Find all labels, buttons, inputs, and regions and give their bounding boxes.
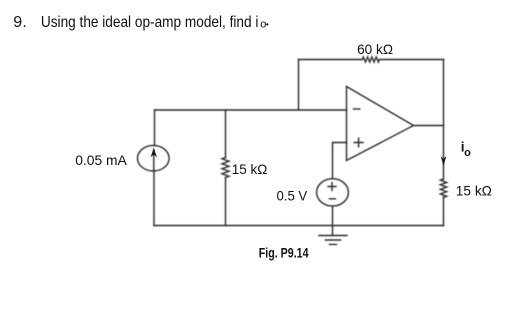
svg-text:15 kΩ: 15 kΩ [456,183,492,199]
op-amp U1 [347,87,414,161]
resistor R 60k [362,57,379,62]
wire right vertical (output to load) [443,60,445,226]
current source arrowhead [151,148,157,157]
svg-text:o: o [464,147,471,159]
ground [319,236,347,245]
voltage source plus sign [328,183,336,191]
wire top rail (inverting input net) [155,109,347,111]
current source arrow [153,150,155,171]
svg-text:0.5 V: 0.5 V [277,188,308,204]
title period [266,23,268,25]
resistor R 15k right (load) [440,179,446,197]
svg-text:9.: 9. [13,14,27,31]
op-amp minus sign [354,108,360,110]
svg-text:Using the ideal op-amp model,: Using the ideal op-amp model, find i [41,14,259,31]
wire bottom rail [154,225,444,227]
resistor R 15k left [222,158,229,178]
wire feedback tap [298,60,300,111]
op-amp plus sign [354,138,363,147]
svg-text:Fig. P9.14: Fig. P9.14 [259,246,309,261]
svg-text:15 kΩ: 15 kΩ [232,161,267,177]
wire op-amp output [414,125,444,127]
wire 15k shunt branch [225,110,227,226]
svg-text:60 kΩ: 60 kΩ [357,41,393,57]
voltage source minus sign [330,198,336,200]
current source I1 circle [138,145,170,171]
io current arrowhead [441,156,447,166]
wire feedback top rail right [379,59,443,61]
voltage source V1 0.5V circle [317,179,349,206]
wire left branch (current source branch) [153,110,156,226]
wire voltage source to bottom rail [332,206,334,235]
wire feedback top rail left [299,59,363,61]
svg-text:0.05 mA: 0.05 mA [75,152,127,168]
wire noninverting input [333,143,347,179]
svg-text:o: o [260,18,266,30]
